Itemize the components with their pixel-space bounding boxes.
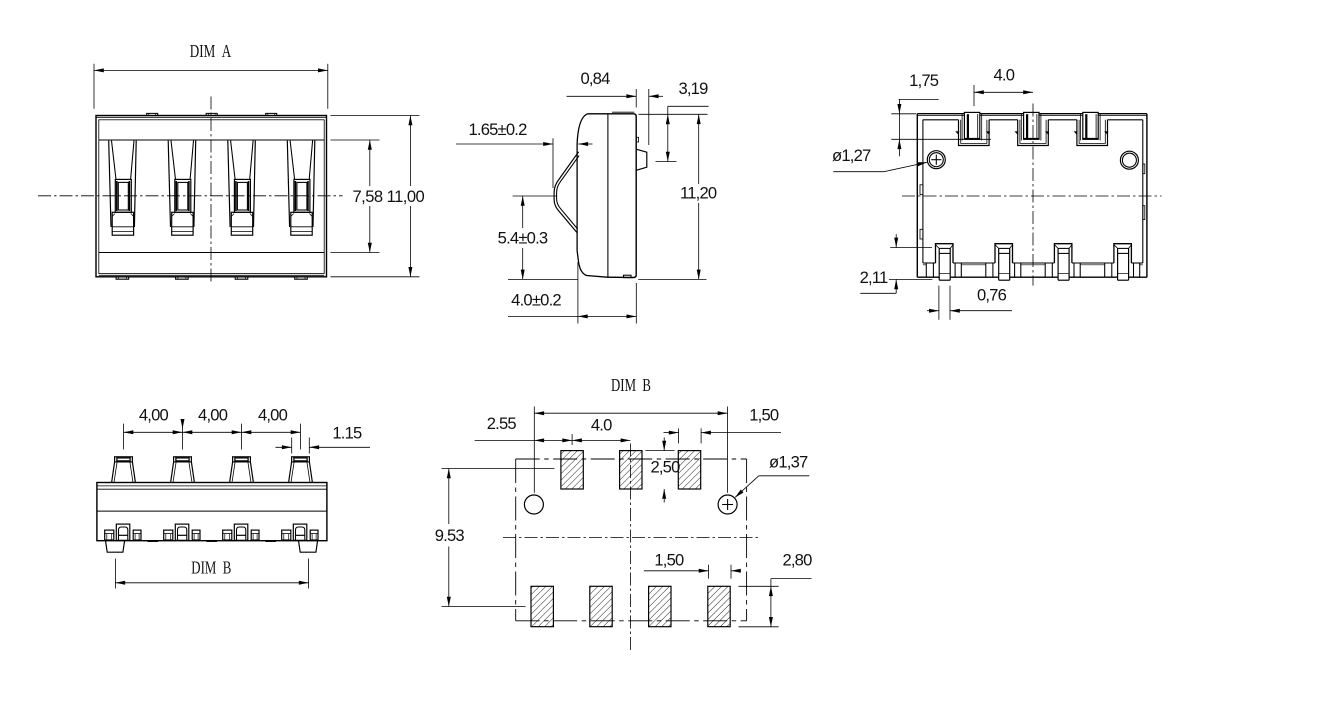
dimension DIM B (footprint): [534, 375, 727, 493]
dimension DIM B (back view): [115, 557, 308, 588]
svg-text:1,75: 1,75: [909, 71, 939, 90]
top view: horizontal centerline: [902, 195, 1162, 197]
footprint: bottom pad 4: [708, 586, 730, 626]
top view: slot and post 1: [955, 112, 990, 145]
top view: vertical centerline: [1032, 104, 1034, 286]
side view: body outline: [577, 112, 636, 277]
svg-text:4.0±0.2: 4.0±0.2: [511, 291, 561, 310]
back view: bottom tab group 4: [282, 524, 318, 540]
dimension 11,20: [639, 114, 717, 279]
front view: spring contact 3: [228, 141, 256, 236]
back view: contact post 3: [230, 457, 254, 483]
top view: mounting hole left (with cross): [927, 151, 945, 169]
svg-text:1.65±0.2: 1.65±0.2: [468, 120, 527, 139]
dimension 1,50 (bottom): [644, 551, 741, 579]
top view: bottom post 4: [1105, 244, 1140, 281]
footprint: bottom pad 2: [590, 586, 612, 626]
svg-text:ø1,37: ø1,37: [769, 453, 808, 472]
svg-text:DIM B: DIM B: [611, 375, 651, 395]
dimension 4.0±0.2: [508, 262, 636, 324]
back view: body outline: [97, 483, 327, 541]
svg-text:0,76: 0,76: [977, 286, 1007, 305]
back view: left foot: [106, 541, 125, 553]
footprint: bottom pad 3: [649, 586, 671, 626]
dimension 2.55: [475, 414, 631, 443]
footprint: top pad 1: [561, 451, 583, 489]
dimension 3,19: [656, 79, 709, 162]
svg-text:4.0: 4.0: [591, 415, 612, 434]
svg-text:1,50: 1,50: [749, 405, 779, 424]
footprint: horizontal centerline: [503, 537, 759, 539]
dimension 0,76: [927, 286, 1012, 320]
front view: bottom edge bumps: [116, 277, 307, 279]
svg-text:7,58 11,00: 7,58 11,00: [353, 187, 425, 206]
back view: contact post 2: [171, 457, 195, 483]
top view: mounting hole right: [1120, 151, 1138, 169]
svg-text:11,20: 11,20: [680, 184, 717, 203]
dimension 1.65±0.2: [456, 120, 593, 188]
footprint: vertical centerline: [629, 444, 631, 652]
front view: top edge bumps: [147, 113, 277, 115]
svg-text:3,19: 3,19: [678, 79, 708, 98]
dimension 1,75: [891, 71, 991, 156]
svg-text:4,00: 4,00: [198, 405, 228, 424]
svg-text:0,84: 0,84: [580, 69, 610, 88]
dimension 4,00 chain: [124, 405, 301, 449]
dimension DIM A: [94, 41, 328, 109]
side view: spring arm inner: [557, 156, 580, 229]
footprint: bottom pad 1: [531, 586, 553, 626]
top view: inner top edge: [923, 119, 1143, 121]
top view: bottom post 3: [1045, 244, 1080, 281]
svg-text:ø1,27: ø1,27: [832, 146, 871, 165]
back view: right foot: [299, 541, 318, 553]
front view: vertical centerline: [210, 97, 212, 285]
footprint: outline (phantom): [516, 459, 747, 621]
dimension 7,58: [368, 140, 372, 253]
dimension ø1,37 with leader: [735, 453, 809, 498]
top view: bottom band lines: [917, 263, 1147, 277]
top view: slot and post 3: [1074, 112, 1109, 145]
front view: spring contact 2: [168, 141, 196, 236]
dimension 4.0 (top view): [974, 65, 1033, 106]
footprint: top pad 3: [678, 451, 700, 489]
back view: contact post 4: [289, 457, 313, 483]
side view: spring arm outer: [554, 152, 579, 233]
back view: bottom tab group 2: [164, 524, 200, 540]
svg-text:4.0: 4.0: [993, 65, 1014, 84]
side view bottom extension lines: [508, 278, 707, 280]
top view: slot and post 2: [1015, 112, 1050, 145]
top view: housing outline: [917, 114, 1147, 278]
svg-text:DIM A: DIM A: [190, 41, 232, 61]
dimension 2,80: [739, 551, 813, 627]
side view: bottom contact tab: [624, 275, 632, 277]
front view: spring contact 4: [287, 141, 315, 236]
svg-text:9.53: 9.53: [435, 526, 465, 545]
front view: housing outline: [96, 116, 327, 277]
dimension 5.4±0.3: [498, 196, 557, 279]
top view: bottom post 2: [986, 244, 1021, 281]
svg-text:5.4±0.3: 5.4±0.3: [498, 229, 548, 248]
side view: latch protrusion: [636, 149, 647, 170]
svg-text:2.55: 2.55: [487, 414, 517, 433]
top view: top edge double line: [917, 114, 1147, 116]
svg-text:4,00: 4,00: [258, 405, 288, 424]
svg-text:2,11: 2,11: [860, 268, 888, 287]
svg-text:1.15: 1.15: [332, 424, 362, 443]
side view: right edge tab: [636, 137, 638, 142]
svg-text:2,80: 2,80: [782, 551, 812, 570]
svg-text:DIM B: DIM B: [191, 557, 231, 577]
svg-text:1,50: 1,50: [654, 551, 684, 570]
footprint: hole left: [524, 495, 543, 514]
dimension 1.15: [276, 424, 371, 454]
svg-text:4,00: 4,00: [139, 405, 169, 424]
front view: horizontal centerline: [38, 195, 343, 197]
top view: bottom post 1: [926, 244, 961, 281]
dimension 1,50 (top): [664, 405, 782, 443]
top view: side tabs: [920, 164, 1145, 239]
back view: contact post 1: [112, 457, 136, 483]
footprint: top pad 2: [620, 451, 642, 489]
dimension 7,58 / 11,00 extension lines: [331, 116, 420, 277]
dimension 2,11: [860, 234, 933, 293]
front view: spring contact 1: [109, 141, 137, 236]
back view: bottom tab group 1: [105, 524, 141, 540]
dimension 9.53: [435, 469, 555, 607]
dimension 11,00: [353, 116, 425, 277]
dimension ø1,27 with leader: [832, 146, 927, 172]
back view: bottom tab group 3: [223, 524, 259, 540]
footprint: hole right (with cross): [718, 495, 737, 514]
back view: bottom edge dips: [147, 540, 277, 543]
dimension 0,84: [567, 69, 664, 145]
dimension 4.0 (footprint): [572, 415, 630, 445]
svg-text:2,50: 2,50: [650, 457, 680, 476]
dimension 2,50: [646, 437, 681, 502]
